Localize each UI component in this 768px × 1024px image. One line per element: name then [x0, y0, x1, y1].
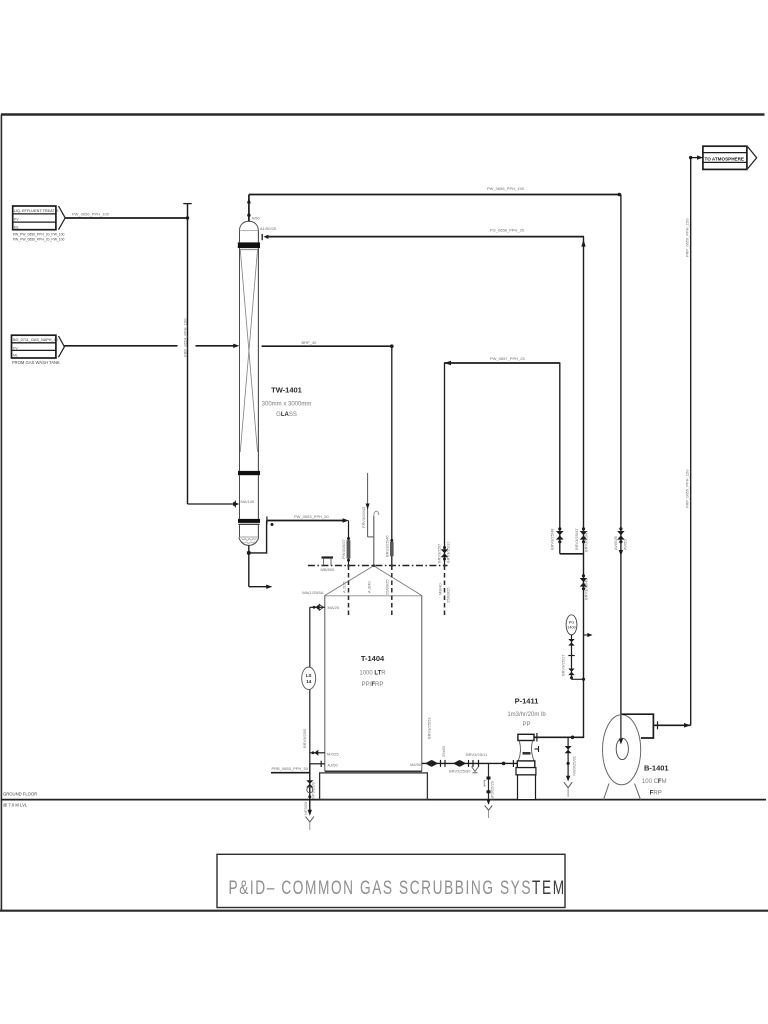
svg-text:NP3/25: NP3/25	[303, 801, 308, 815]
svg-text:BRV3/25/41: BRV3/25/41	[584, 530, 589, 552]
svg-text:MJ/50: MJ/50	[410, 762, 422, 767]
column labels	[262, 386, 312, 419]
svg-text:GLASS: GLASS	[276, 412, 297, 418]
svg-text:MB/500: MB/500	[321, 567, 336, 572]
pressure gauge instrument on line B	[566, 615, 585, 681]
border frame left	[0, 115, 2, 911]
svg-text:FRP: FRP	[650, 791, 662, 797]
svg-text:T-1404: T-1404	[361, 654, 385, 663]
svg-text:1400: 1400	[567, 626, 575, 630]
svg-text:PG: PG	[569, 621, 575, 625]
svg-text:PW_0656_PPH_150: PW_0656_PPH_150	[487, 186, 525, 191]
wire into column lower nozzle	[188, 503, 234, 505]
svg-text:BRV3/25/47: BRV3/25/47	[574, 528, 579, 550]
svg-text:BRP_40: BRP_40	[302, 340, 318, 345]
svg-text:LIQ. EFFLUENT TREATM.: LIQ. EFFLUENT TREATM.	[14, 209, 59, 213]
drain header wire	[271, 772, 310, 774]
svg-text:FRP_0654_PPH_150: FRP_0654_PPH_150	[183, 318, 188, 357]
discharge drain branch	[564, 737, 572, 797]
svg-text:PV: PV	[13, 346, 18, 350]
svg-text:MB/40: MB/40	[438, 583, 443, 595]
line C (gas down-comer to blower)	[617, 195, 624, 745]
dip pipe 3 (x=444, PW_0657) with valve	[441, 363, 449, 616]
pump labels	[507, 697, 546, 729]
svg-text:PP: PP	[522, 722, 530, 728]
svg-text:ML: ML	[14, 225, 19, 229]
svg-text:TO ATMOSPHERE: TO ATMOSPHERE	[705, 156, 744, 161]
svg-text:PW3/25/27: PW3/25/27	[341, 538, 346, 559]
svg-text:AJ/50: AJ/50	[328, 762, 339, 767]
svg-text:P&ID– COMMON GAS SCRUBBING: P&ID– COMMON GAS SCRUBBING SYSTEM	[229, 877, 566, 899]
riser to atmosphere	[689, 155, 703, 725]
svg-text:25/83/25: 25/83/25	[446, 587, 451, 603]
svg-text:PW_0656_PPH_100: PW_0656_PPH_100	[72, 211, 110, 216]
wire flag F1 to vertical	[65, 217, 187, 219]
svg-text:A.3/40: A.3/40	[367, 581, 372, 593]
svg-text:FRP_0659_PPH_150: FRP_0659_PPH_150	[685, 469, 690, 508]
border frame top	[1, 113, 765, 115]
suction wire tank to pump	[422, 760, 518, 773]
line A (PW_0657 drop to line B)	[556, 363, 584, 554]
BRP_40 wire from column to tank dip pipe	[262, 345, 392, 347]
PW_0653 wire column bottoms to tank	[267, 517, 349, 525]
svg-text:P-1411: P-1411	[515, 697, 539, 706]
blower discharge wire	[653, 721, 690, 729]
title block box	[217, 854, 565, 907]
wash liquid wire from line B to column	[268, 236, 584, 238]
svg-text:AV/50: AV/50	[623, 539, 628, 550]
svg-text:25x50: 25x50	[441, 745, 446, 757]
svg-text:MA/25: MA/25	[328, 605, 340, 610]
svg-text:BRV3/25/45: BRV3/25/45	[584, 578, 589, 600]
svg-text:PW_PW_0656_PPH_20_PW_100: PW_PW_0656_PPH_20_PW_100	[13, 238, 65, 242]
svg-text:A/50: A/50	[252, 215, 261, 220]
suction drain drop	[484, 763, 492, 818]
dip pipe 1 (x=348.5) with inline component	[347, 521, 351, 617]
svg-text:FRP_0659_PPH_150: FRP_0659_PPH_150	[685, 218, 690, 257]
border frame bottom	[0, 910, 768, 912]
line B (pump discharge riser to column)	[580, 237, 593, 738]
tank T-1404	[308, 566, 448, 800]
svg-text:PRB_0655_PPH_50: PRB_0655_PPH_50	[272, 766, 309, 771]
svg-text:25/80/25: 25/80/25	[385, 579, 390, 595]
svg-text:ML: ML	[13, 353, 18, 357]
svg-text:A.2/25: A.2/25	[342, 581, 347, 593]
vertical pipe from flag F1 down to column nozzle	[183, 204, 191, 504]
flange tick before pump	[512, 760, 514, 767]
svg-text:A1/50/25: A1/50/25	[260, 226, 277, 231]
flag F2 inlet (from gas wash tank)	[12, 335, 65, 365]
flag F1 inlet (top-left source flag)	[13, 206, 65, 242]
PW_0657 wire from tank dip to line A	[444, 362, 560, 364]
svg-text:PW_0653_PPH_50: PW_0653_PPH_50	[294, 514, 329, 519]
svg-text:LS: LS	[306, 673, 312, 678]
svg-text:MX/25: MX/25	[327, 752, 339, 757]
vent gooseneck on tank apex	[366, 473, 379, 567]
svg-text:BRV3/25/11: BRV3/25/11	[466, 752, 488, 757]
svg-text:BRV3/25/7: BRV3/25/7	[437, 543, 442, 563]
pump P-1411	[516, 733, 539, 800]
ground line	[1, 799, 766, 801]
tank drain drop with valve and funnel	[306, 764, 314, 830]
svg-text:NP3/25/29: NP3/25/29	[490, 780, 495, 800]
svg-text:B-1401: B-1401	[644, 764, 669, 773]
tank roof vent cap	[322, 556, 334, 565]
wire flag F2 line (right of break) with arrow into column	[196, 345, 234, 347]
svg-text:TW-1401: TW-1401	[271, 386, 302, 395]
overhead gas wire to blower riser	[249, 194, 621, 196]
column side nozzle with arrow (liquid inlet)	[262, 234, 268, 240]
dip pipe 2 (x=391.8, BRP_40) with inline component	[390, 346, 394, 616]
svg-text:PW_0657_PPH_25: PW_0657_PPH_25	[490, 356, 525, 361]
flag TO ATMOSPHERE	[703, 146, 757, 169]
svg-text:BRV3/25/30: BRV3/25/30	[449, 768, 471, 773]
svg-text:NP3/25/9: NP3/25/9	[311, 782, 316, 799]
svg-text:FRV3/25/43: FRV3/25/43	[361, 506, 366, 528]
level gauge standpipe on tank left	[302, 604, 325, 810]
svg-text:PW_PW_0656_PPH_20_PW_100: PW_PW_0656_PPH_20_PW_100	[13, 232, 65, 236]
title text	[229, 877, 566, 899]
svg-text:PV: PV	[14, 218, 19, 222]
svg-text:14: 14	[306, 679, 312, 684]
svg-text:AV/50/5: AV/50/5	[613, 535, 618, 550]
svg-text:BRV3/25/5: BRV3/25/5	[302, 728, 307, 748]
svg-text:PG_0658_PPH_25: PG_0658_PPH_25	[490, 228, 525, 233]
blower labels	[642, 764, 669, 797]
tank labels	[359, 654, 386, 688]
svg-text:BRV3/25/17: BRV3/25/17	[561, 654, 566, 676]
column bottom outlet piping	[247, 521, 274, 589]
svg-text:BG_0711_GAS_NAPH_40: BG_0711_GAS_NAPH_40	[13, 338, 58, 342]
svg-text:BRV3/25/48: BRV3/25/48	[550, 528, 555, 550]
svg-text:BRS3/25/46: BRS3/25/46	[385, 535, 390, 557]
svg-text:WA(1/25/5A: WA(1/25/5A	[302, 590, 324, 595]
pump discharge wire	[534, 736, 584, 738]
svg-text:NW3/25/32: NW3/25/32	[572, 755, 577, 776]
column TW-1401	[238, 221, 260, 545]
svg-text:1000 LTR: 1000 LTR	[359, 671, 386, 677]
ground label	[3, 792, 37, 808]
blower B-1401	[603, 714, 654, 799]
svg-text:300mm x 3000mm: 300mm x 3000mm	[262, 402, 312, 408]
svg-text:PP/FRP: PP/FRP	[362, 682, 384, 688]
svg-text:1m3/hr/20m lb: 1m3/hr/20m lb	[507, 712, 546, 718]
wire flag F2 line (left of break)	[64, 345, 177, 347]
svg-text:GROUND FLOOR: GROUND FLOOR	[3, 792, 37, 797]
svg-text:FROM GAS WASH TANK: FROM GAS WASH TANK	[12, 360, 60, 365]
svg-text:@ 7.0 M LVL: @ 7.0 M LVL	[3, 803, 28, 808]
column top riser	[247, 195, 251, 222]
svg-text:MA/100: MA/100	[241, 499, 256, 504]
svg-text:100 CFM: 100 CFM	[642, 779, 667, 785]
svg-text:BRV3/25/12: BRV3/25/12	[446, 541, 451, 563]
svg-text:BRV3/25/23: BRV3/25/23	[427, 717, 432, 739]
